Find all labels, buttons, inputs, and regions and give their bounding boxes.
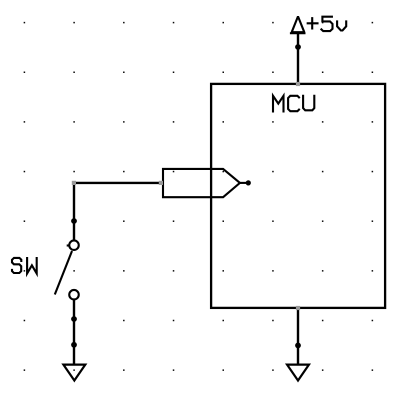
pin connection dot — [246, 180, 251, 185]
net endpoint marker at wire corner — [72, 181, 76, 185]
net endpoint marker at MCU top pin — [296, 82, 300, 86]
ground symbol (MCU side) — [287, 365, 309, 381]
label SW — [12, 258, 37, 274]
net endpoint marker at pin — [159, 181, 163, 185]
junction dot — [71, 342, 77, 348]
label MCU — [273, 96, 314, 112]
junction dot above switch — [71, 218, 77, 224]
junction dot on +5v wire — [295, 44, 301, 50]
switch SW — [55, 240, 79, 299]
label +5v — [308, 17, 347, 31]
junction dot — [71, 316, 77, 322]
wire +5v to MCU — [297, 33, 299, 84]
MCU box — [211, 84, 385, 308]
wire switch to ground — [73, 300, 75, 365]
ground symbol (switch side) — [63, 365, 85, 381]
wire MCU to ground — [297, 308, 299, 365]
horizontal wire from switch to pin — [74, 182, 163, 184]
vertical wire down to switch — [73, 183, 75, 240]
MCU input pin symbol (flag) — [163, 169, 246, 197]
junction dot — [295, 343, 301, 349]
power symbol +5V (VCC triangle) — [290, 16, 306, 33]
net endpoint marker at MCU bottom pin — [296, 306, 300, 310]
